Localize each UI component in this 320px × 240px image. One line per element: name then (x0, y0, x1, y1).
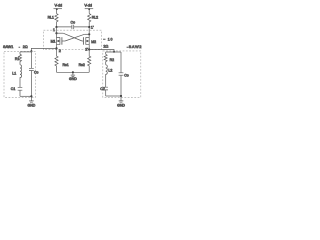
capacitor C2 (100, 76, 108, 97)
svg-text:1: 1 (53, 27, 55, 32)
ground (middle) (69, 72, 77, 81)
svg-text:1': 1' (91, 25, 94, 30)
svg-text:RL1: RL1 (48, 16, 54, 20)
svg-text:C1: C1 (11, 87, 16, 91)
transistor M2 (82, 34, 96, 49)
wire bottom rail (57, 71, 90, 73)
svg-text:V-dd: V-dd (55, 3, 63, 7)
supply V-dd right (84, 3, 93, 13)
inductor L2 (106, 65, 113, 76)
wire node1 to cross (57, 32, 64, 34)
svg-text:M2: M2 (91, 40, 96, 44)
capacitor Co (SAW2 shunt) (119, 52, 129, 96)
inductor L1 (12, 65, 21, 78)
resistor Rs2 (79, 50, 91, 73)
SAW2 dashed box (103, 51, 141, 97)
svg-text:SAW1: SAW1 (3, 45, 13, 49)
svg-text:GND: GND (69, 77, 77, 81)
svg-text:Co: Co (124, 73, 129, 77)
resistor RL2 (88, 14, 99, 28)
wire SAW1 bottom (20, 95, 31, 97)
svg-text:M1: M1 (51, 39, 56, 43)
svg-text:-: - (19, 45, 21, 49)
wire node 2' to SAW2 (89, 50, 114, 52)
wire node 2 to SAW1 (31, 48, 56, 51)
capacitor Co (top, between node 1 and 1') (57, 21, 90, 30)
svg-text:R2: R2 (110, 58, 115, 62)
svg-text:2Ω: 2Ω (103, 44, 108, 48)
svg-text:-SAW2: -SAW2 (127, 44, 142, 49)
ground (SAW1) (28, 96, 36, 107)
wire cross-couple diagonal to M2 gate (63, 33, 82, 41)
ground (SAW2) (117, 96, 125, 107)
resistor R1 (15, 54, 22, 65)
svg-text:2': 2' (85, 47, 88, 52)
dashed core box (44, 30, 102, 50)
supply V-dd left (54, 3, 63, 13)
svg-text:Rs2: Rs2 (79, 63, 85, 67)
resistor RL1 (48, 14, 59, 28)
node 1 (53, 26, 58, 34)
node 1' (88, 25, 94, 36)
capacitor C1 (11, 78, 22, 96)
resistor R2 (104, 54, 114, 65)
svg-text:GND: GND (117, 103, 125, 107)
svg-text:~ 10: ~ 10 (103, 38, 113, 42)
capacitor Co (SAW1 shunt) (29, 51, 39, 96)
wire SAW1 inner top (20, 52, 31, 54)
svg-text:GND: GND (28, 103, 36, 107)
svg-text:V-dd: V-dd (84, 3, 92, 7)
node 2' (85, 47, 90, 52)
svg-text:Co: Co (71, 21, 76, 25)
junction node G (72, 71, 74, 73)
wire SAW2 inner top (106, 52, 121, 54)
svg-text:L1: L1 (12, 71, 16, 75)
svg-text:2Ω: 2Ω (23, 45, 28, 49)
node 2 (55, 47, 60, 53)
svg-text:Co: Co (34, 70, 39, 74)
svg-text:L2: L2 (108, 69, 112, 73)
SAW1 dashed box (4, 51, 35, 97)
svg-text:2: 2 (59, 48, 61, 53)
wire SAW2 bottom (106, 95, 121, 97)
resistor Rs1 (55, 48, 69, 72)
svg-text:Rs1: Rs1 (63, 63, 69, 67)
transistor M1 (51, 33, 65, 48)
svg-text:RL2: RL2 (92, 16, 98, 20)
wire cross-couple diagonal to M1 gate (65, 34, 84, 41)
wire node1' to cross (84, 33, 89, 35)
